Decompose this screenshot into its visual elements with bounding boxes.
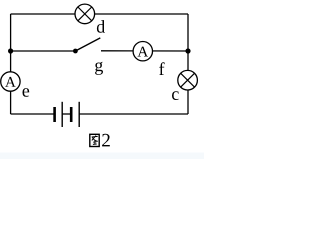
switch g lever (75, 38, 100, 51)
wire left (10, 14, 12, 114)
switch g pivot dot (73, 49, 78, 54)
lamp c (178, 70, 198, 90)
battery cell plate tall (pos) 2 (78, 102, 80, 127)
wire switch to ammeter f (101, 50, 188, 52)
caption number 2 (102, 134, 110, 147)
label e (23, 88, 30, 97)
battery cell plate short (neg) 2 (70, 107, 73, 122)
node junction left (8, 48, 13, 53)
label d (97, 20, 105, 33)
caption hanzi tu (figure) drawn glyph (90, 134, 99, 146)
battery cell plate tall (pos) 1 (61, 102, 63, 127)
ammeter f (U f) (133, 42, 152, 61)
wire between battery cells (62, 113, 71, 115)
wire right (187, 14, 189, 114)
ammeter e (U e) (1, 72, 20, 91)
lamp d (75, 4, 95, 24)
battery cell plate short (neg) 1 (53, 107, 56, 122)
label g (95, 62, 103, 75)
label f (159, 62, 164, 75)
faint bottom band (0, 153, 204, 160)
wire battery to bottom-right (79, 113, 188, 115)
label c (172, 91, 179, 100)
node junction right (185, 48, 190, 53)
wire middle left segment (11, 50, 76, 52)
wire top (11, 13, 188, 15)
wire bottom-left to battery (11, 113, 55, 115)
